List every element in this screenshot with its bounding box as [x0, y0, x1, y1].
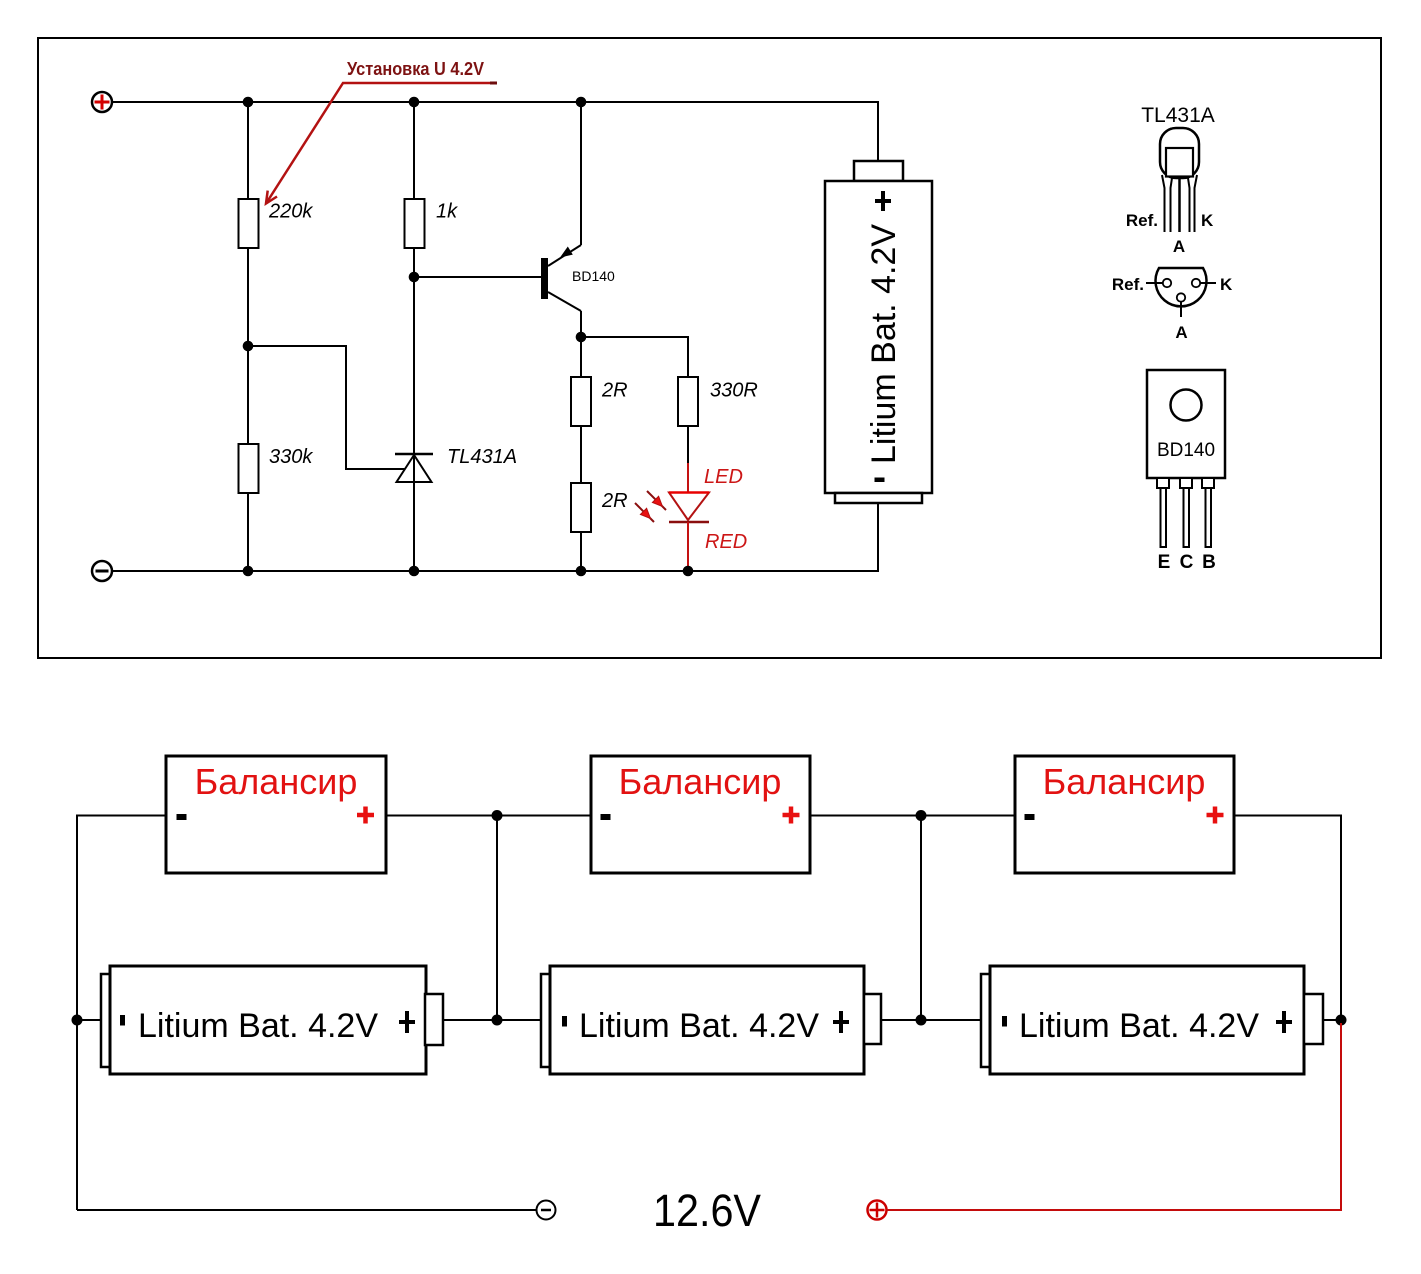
battery cell 1 [101, 966, 443, 1074]
LED arrows [635, 491, 666, 522]
wire balancer2 to balancer3 [810, 815, 1015, 817]
package BD140 TO-126 [1147, 370, 1225, 478]
terminal - (input minus) [92, 561, 112, 581]
wire base [414, 276, 541, 278]
resistor 2R upper [571, 377, 591, 426]
label minus 1 [177, 814, 187, 820]
svg-text:Litium Bat. 4.2V: Litium Bat. 4.2V [1019, 1007, 1259, 1045]
svg-text:E: E [1158, 552, 1171, 573]
svg-text:K: K [1220, 275, 1233, 294]
svg-text:BD140: BD140 [1157, 440, 1215, 461]
LED D1 RED [669, 463, 709, 571]
svg-text:Ref.: Ref. [1126, 211, 1158, 230]
wire column1 upper [247, 102, 249, 199]
label 220k [268, 201, 313, 223]
junction dot base [409, 272, 420, 283]
label LED [704, 466, 743, 488]
label battery 3 [1002, 1007, 1292, 1045]
label 2R lower [601, 490, 628, 512]
label 330k [269, 446, 313, 468]
label K bottom [1220, 275, 1233, 294]
shunt regulator TL431A symbol [395, 454, 433, 482]
label Ref bottom [1112, 275, 1144, 294]
frame border [38, 38, 1381, 658]
junction dots bottom section [72, 810, 1347, 1026]
wire column2 lower [413, 248, 415, 571]
label A front [1173, 237, 1185, 256]
wire balancer1 to balancer2 [386, 815, 591, 817]
label BD140 package [1157, 440, 1215, 461]
callout arrow [266, 83, 497, 204]
battery cell 2 [541, 966, 881, 1074]
wire between 2R [580, 426, 582, 483]
terminal output minus [537, 1201, 556, 1220]
wire node2 vertical [920, 816, 922, 1021]
junction dot collector [576, 332, 587, 343]
transistor Q1 BD140 [541, 103, 581, 337]
label plus 3 (red) [1207, 807, 1224, 824]
svg-text:LED: LED [704, 466, 743, 488]
label 12.6V [653, 1185, 761, 1236]
svg-text:330R: 330R [710, 380, 758, 402]
junction dots bottom rail [243, 566, 694, 577]
label RED [705, 531, 747, 553]
balancer box 1 [166, 756, 386, 873]
package BD140 legs [1157, 478, 1214, 547]
svg-text:Ref.: Ref. [1112, 275, 1144, 294]
wire ref feedback [250, 346, 405, 469]
label battery 1 [120, 1007, 415, 1045]
resistor 330k [239, 444, 259, 493]
svg-text:BD140: BD140 [572, 268, 615, 284]
balancer box 3 [1015, 756, 1234, 873]
label 330R [710, 380, 758, 402]
label TL431A [447, 446, 517, 468]
svg-text:330k: 330k [269, 446, 313, 468]
battery cell 3 [981, 966, 1323, 1074]
svg-text:TL431A: TL431A [1141, 104, 1215, 127]
svg-text:220k: 220k [268, 201, 313, 223]
wire top rail [112, 102, 878, 161]
svg-text:Litium Bat. 4.2V: Litium Bat. 4.2V [579, 1007, 819, 1045]
wire column2 upper [413, 102, 415, 199]
wire 330R to LED [687, 426, 689, 464]
resistor 2R lower [571, 483, 591, 532]
wire balancer3 right [1234, 816, 1341, 1021]
wire collector node [580, 337, 582, 377]
svg-text:K: K [1201, 211, 1214, 230]
svg-text:B: B [1202, 552, 1216, 573]
wire battery1 plus to battery2 [443, 1019, 541, 1021]
svg-text:12.6V: 12.6V [653, 1185, 761, 1236]
wire balancer1 left [77, 816, 166, 1211]
svg-text:2R: 2R [601, 380, 628, 402]
wire bottom rail [112, 503, 878, 571]
label E [1158, 552, 1171, 573]
svg-text:2R: 2R [601, 490, 628, 512]
label minus 2 [601, 814, 611, 820]
label battery B1 [865, 191, 903, 482]
wire output plus (red) [887, 1023, 1342, 1210]
terminal + (input plus) [92, 92, 112, 112]
wire battery1 minus [77, 1019, 101, 1021]
label 2R upper [601, 380, 628, 402]
svg-text:C: C [1180, 552, 1194, 573]
terminal output plus (red) [868, 1201, 887, 1220]
resistor 220k [239, 199, 259, 248]
label B [1202, 552, 1216, 573]
label Ref front [1126, 211, 1158, 230]
svg-text:Установка U 4.2V: Установка U 4.2V [347, 59, 484, 79]
wire column1 middle [247, 248, 249, 444]
label 1k [436, 201, 458, 223]
label BD140 [572, 268, 615, 284]
svg-text:Litium Bat. 4.2V: Litium Bat. 4.2V [138, 1007, 378, 1045]
resistor 330R [678, 377, 698, 426]
wire 2R to rail [580, 532, 582, 571]
label battery 2 [562, 1007, 849, 1045]
label A bottom [1175, 323, 1187, 342]
svg-text:A: A [1175, 323, 1187, 342]
label balancer 2 [619, 761, 782, 802]
svg-text:A: A [1173, 237, 1185, 256]
svg-text:Балансир: Балансир [1043, 761, 1206, 802]
package TL431A title [1141, 104, 1215, 127]
label balancer 1 [195, 761, 358, 802]
battery B1 Litium Bat 4.2V (vertical) [825, 161, 932, 503]
package TO-92 bottom view [1146, 268, 1216, 317]
label K front [1201, 211, 1214, 230]
svg-text:Балансир: Балансир [619, 761, 782, 802]
wire battery2 plus to battery3 [881, 1019, 981, 1021]
svg-text:RED: RED [705, 531, 747, 553]
junction dots top rail [243, 97, 587, 108]
svg-text:TL431A: TL431A [447, 446, 517, 468]
svg-text:1k: 1k [436, 201, 458, 223]
label plus 1 (red) [357, 807, 374, 824]
package TO-92 front view [1160, 128, 1199, 232]
wire to 330R [581, 337, 688, 377]
wire node1 vertical [496, 816, 498, 1021]
label Ustanovka U 4.2V [347, 59, 484, 79]
wire to output minus [77, 1209, 537, 1211]
label C [1180, 552, 1194, 573]
resistor 1k [405, 199, 425, 248]
label minus 3 [1025, 814, 1035, 820]
label plus 2 (red) [783, 807, 800, 824]
balancer box 2 [591, 756, 810, 873]
junction dot divider [243, 341, 254, 352]
svg-text:Балансир: Балансир [195, 761, 358, 802]
wire column1 lower [247, 493, 249, 571]
wire battery3 plus [1323, 1019, 1341, 1021]
label balancer 3 [1043, 761, 1206, 802]
svg-text:Litium Bat. 4.2V: Litium Bat. 4.2V [865, 224, 903, 464]
